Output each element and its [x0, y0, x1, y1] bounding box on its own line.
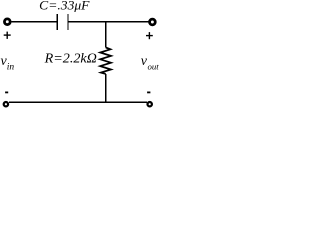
svg-text:C=.33μF: C=.33μF	[39, 0, 90, 12]
svg-text:in: in	[7, 62, 15, 72]
svg-text:R=2.2kΩ: R=2.2kΩ	[44, 52, 97, 67]
svg-text:out: out	[148, 62, 160, 72]
